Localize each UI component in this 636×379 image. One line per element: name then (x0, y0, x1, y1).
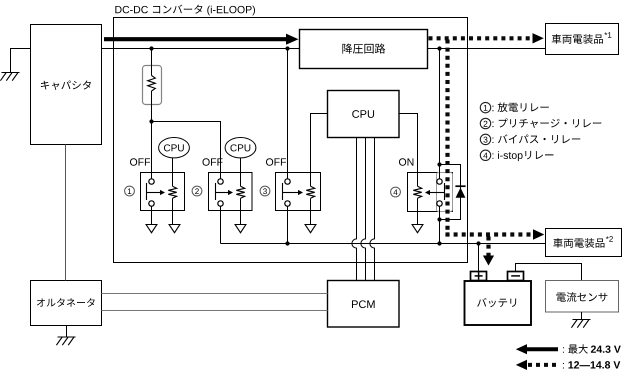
wire alternator to PCM lower (102, 310, 328, 312)
label capacitor (41, 80, 91, 89)
relay 1 switch contacts (149, 179, 154, 184)
wire relay1 switch to ground arrow (151, 206, 153, 224)
relay 4 switch highlight box (437, 173, 453, 212)
node resistor output junction (149, 119, 153, 123)
relay 4 switch arrow (430, 192, 445, 194)
relay 2 switch arrow (216, 192, 229, 194)
relay box 2 precharge relay (209, 173, 253, 211)
label OFF relay1 (130, 158, 150, 165)
relay 2 switch contacts (218, 179, 223, 184)
wire CPU to PCM 3 (370, 138, 375, 281)
wire relay1 coil to ground arrow (172, 198, 174, 224)
wire CPU ellipse to relay2 coil (240, 158, 242, 186)
wire junction to relay2 switch (152, 122, 221, 179)
legend item circled 1 relay name (480, 102, 490, 112)
legend dashed arrow 12-14.8V (528, 363, 558, 367)
wire CPU box to relay4 coil (399, 114, 418, 187)
relay box 4 i-stop relay (408, 173, 453, 212)
node battery positive junction (476, 241, 480, 245)
label vehicle electrical 1 (552, 34, 603, 44)
ground arrow relay1 coil (169, 225, 180, 233)
wire relay3 switch to bottom bus (287, 206, 289, 243)
capacitor block (31, 25, 102, 145)
ground under current sensor (573, 319, 591, 321)
ground arrow relay2 coil (235, 225, 246, 233)
legend item circled 4 relay name (480, 150, 490, 160)
label OFF relay2 (203, 158, 223, 165)
node diode top junction (437, 162, 441, 166)
legend item circled 3 relay name (480, 134, 490, 144)
wire CPU ellipse to relay1 coil (172, 158, 174, 186)
label DC-DC converter (i-ELOOP) (115, 5, 255, 16)
resistor precharge gray box (143, 66, 162, 105)
wire alternator to ground (66, 326, 68, 338)
wire relay4 switch to bottom bus (439, 206, 441, 243)
node diode bottom junction (437, 217, 441, 221)
wire bus to relay3 switch (287, 49, 289, 179)
dashed line to vehicle electrical 2 (446, 232, 535, 236)
label 12-14.8 V (563, 361, 620, 368)
alternator block (31, 281, 102, 326)
diode bypass loop wire (440, 165, 461, 220)
wire capacitor to alternator (65, 145, 67, 281)
relay 1 switch arrow (147, 192, 161, 194)
battery negative terminal (508, 272, 524, 281)
ground arrow relay1 switch (146, 225, 157, 233)
node step-down output junction (437, 46, 441, 50)
current sensor block (546, 281, 619, 313)
vehicle electrical device 2 box (546, 229, 622, 257)
wire main bus capacitor to step-down circuit (102, 48, 300, 50)
wire bus to battery positive (478, 244, 480, 272)
CPU block (328, 91, 400, 138)
resistor zigzag element (148, 76, 156, 92)
dashed line down from step-down output (445, 40, 449, 237)
relay 1 coil (168, 186, 176, 198)
label circled 1 (125, 186, 135, 196)
wire battery negative to current sensor (516, 264, 582, 281)
wire capacitor to ground (11, 49, 31, 73)
relay box 1 discharge relay (141, 173, 185, 211)
wire alternator to PCM upper (102, 293, 328, 295)
ground under alternator (58, 336, 76, 338)
diode D1 anode triangle (456, 188, 466, 198)
label PCM (352, 300, 375, 308)
label OFF relay3 (266, 158, 286, 165)
battery positive terminal (471, 272, 487, 281)
battery block (465, 281, 532, 325)
ground under capacitor wire (2, 72, 20, 74)
node bus-relay3 junction (285, 46, 289, 50)
relay 4 coil (413, 186, 421, 198)
relay 3 switch contacts (285, 179, 290, 184)
relay box 3 bypass relay (276, 173, 321, 211)
thick power arrow capacitor to step-down circuit (104, 37, 288, 41)
label vehicle electrical 2 (553, 238, 604, 248)
wire CPU to PCM 2 (361, 138, 366, 281)
wire relay4 coil to ground arrow (417, 198, 419, 224)
diode D1 cathode bar (455, 185, 465, 187)
wire bottom bus (221, 243, 546, 245)
legend thick arrow max 24.3V (526, 347, 558, 351)
outer enclosure box DC-DC converter (114, 18, 468, 263)
relay 4 switch contacts (437, 179, 442, 184)
label circled 4 (391, 187, 401, 197)
label max 24.3 V (563, 344, 621, 353)
wire resistor to relay1 switch (151, 91, 153, 179)
legend item circled 2 relay name (480, 118, 490, 128)
relay 3 switch arrow (283, 192, 299, 194)
node relay3 bottom junction (285, 241, 289, 245)
label step-down circuit (342, 43, 385, 53)
label alternator (37, 298, 95, 307)
wire bus to resistor (151, 49, 153, 76)
wire current sensor to ground (581, 312, 583, 320)
node bus-resistor junction (149, 46, 153, 50)
label circled 3 (260, 186, 270, 196)
step-down circuit block (300, 30, 428, 69)
ground arrow relay4 coil (412, 225, 423, 233)
vehicle electrical device 1 box (546, 24, 619, 55)
label circled 2 (192, 186, 202, 196)
node relay4 bottom junction (437, 241, 441, 245)
wire CPU to PCM 1 (352, 138, 357, 281)
wire relay3 coil to ground arrow (310, 198, 312, 224)
PCM block (328, 281, 400, 328)
dashed line branch to battery (486, 237, 490, 257)
relay 3 coil (306, 186, 314, 198)
wire step-down output to relay4 switch (439, 49, 441, 179)
label CPU (352, 110, 374, 118)
wire relay2 switch to bottom bus (220, 206, 222, 243)
wire step-down output to vehicle electrical 1 (428, 48, 546, 50)
label battery (477, 298, 516, 307)
relay 2 coil (236, 186, 244, 198)
ground arrow relay3 coil (305, 225, 316, 233)
CPU control ellipse relay2 (225, 138, 256, 158)
label current sensor (557, 292, 608, 302)
label ON relay4 (399, 158, 413, 165)
CPU control ellipse relay1 (159, 138, 190, 158)
dashed line step-down to vehicle electrical 1 (429, 36, 535, 40)
wire CPU box to relay3 coil (311, 114, 328, 187)
wire relay2 coil to ground arrow (240, 198, 242, 224)
